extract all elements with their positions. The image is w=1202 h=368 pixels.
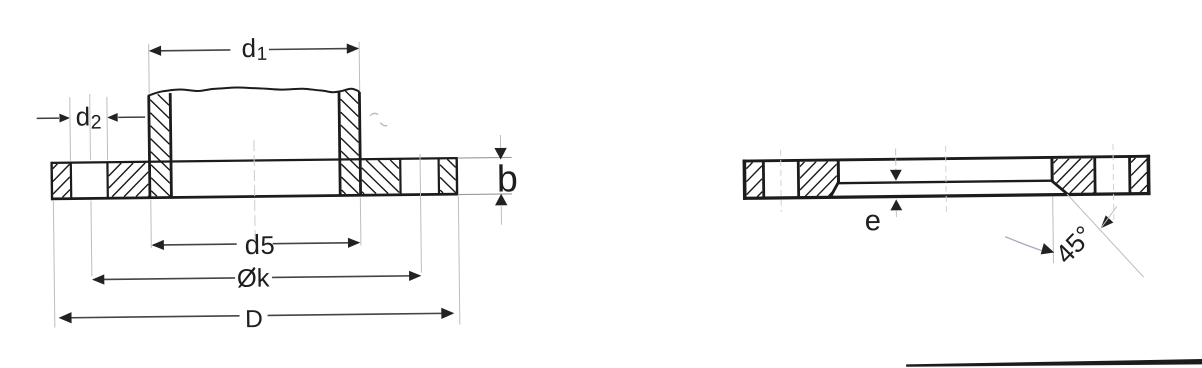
hatch right rim section <box>440 159 456 193</box>
label Øk slash overlay <box>239 267 255 287</box>
scan smudge artifact <box>370 113 387 126</box>
hatch hub wall left <box>150 94 170 196</box>
right view bolt hole left - left edge <box>762 160 765 199</box>
dimension d1 extension line right <box>358 42 361 91</box>
dimension Øk arrowhead right <box>409 271 421 281</box>
dimension d1 arrowhead left <box>149 46 161 56</box>
dimension 45 vertical extension <box>1052 197 1055 263</box>
dimension d5 line right segment <box>273 243 359 244</box>
bolt centerline right (with Øk extension) <box>420 154 421 272</box>
dimension d1 arrowhead right <box>347 43 359 53</box>
bolt hole right - right edge <box>437 158 440 195</box>
dimension e leader below <box>895 210 897 217</box>
dimension 45 arrowhead at vertical <box>1041 243 1055 254</box>
right view centerline <box>945 146 948 212</box>
dimension D extension line right <box>458 196 460 324</box>
bolt hole left - right edge <box>106 162 109 199</box>
dimension d2 leader left <box>37 117 59 119</box>
left view flange plate bottom line <box>52 194 457 199</box>
dimension d1 line left segment <box>150 49 230 52</box>
dimension D arrowhead right <box>441 308 454 319</box>
hatch left rim section <box>53 164 70 198</box>
dimension D line right segment <box>268 313 453 315</box>
dimension Øk line right segment <box>272 276 420 278</box>
dimension Øk arrowhead left <box>92 274 104 284</box>
hub wall left outer edge <box>149 96 150 198</box>
dimension b arrowhead up <box>495 194 508 206</box>
dimension b leader below <box>500 206 502 225</box>
hub wall right outer edge <box>359 92 360 196</box>
dimension d1 extension line left <box>148 44 151 93</box>
dimension e leader above <box>895 149 897 170</box>
dimension d2 arrowhead right <box>107 113 118 122</box>
dimension 45 chamfer extension <box>1067 193 1144 278</box>
dimension e arrowhead down <box>890 170 902 181</box>
right view bore seat line <box>839 181 1052 184</box>
hatch right view left rim <box>746 162 762 197</box>
hatch left web section <box>109 163 149 197</box>
right view flange plate left edge <box>743 160 747 200</box>
label d5 <box>246 234 274 255</box>
dimension b arrowhead down <box>494 148 507 160</box>
bolt hole left - left edge <box>70 162 73 199</box>
bolt hole right - left edge <box>399 158 402 195</box>
dimension b extension line top <box>457 156 511 159</box>
right view bolt centerline right <box>1112 144 1115 221</box>
dimension b leader above <box>499 135 501 148</box>
dimension 45 leader at chamfer <box>1101 207 1117 229</box>
dimension d2 leader right <box>118 116 145 118</box>
label d1 <box>243 38 267 60</box>
dimension D arrowhead left <box>58 312 71 323</box>
dimension d5 arrowhead left <box>152 240 164 250</box>
left view flange plate right edge <box>455 157 458 195</box>
right view weld chamfer left <box>831 182 839 196</box>
right view bolt hole right - left edge <box>1093 156 1096 195</box>
dimension d1 line right segment <box>269 48 358 49</box>
dimension d2 extension line right <box>106 97 109 160</box>
label D <box>247 310 262 327</box>
dimension d5 line left segment <box>153 243 236 246</box>
bolt centerline left (with Øk extension) <box>89 94 92 160</box>
left view flange plate top line <box>51 158 456 163</box>
right view bore edge right <box>1050 157 1053 181</box>
label 45 degrees <box>1054 225 1094 265</box>
right view bolt centerline left <box>780 150 783 212</box>
hub wall right inner edge <box>339 91 340 196</box>
right view flange plate top line <box>743 156 1150 161</box>
dimension Øk line left segment <box>94 278 235 280</box>
hatch hub wall right <box>340 91 359 194</box>
dimension 45 arc <box>1005 236 1041 251</box>
dimension b extension line bottom <box>458 193 512 196</box>
dimension d2 arrowhead left <box>59 114 70 123</box>
dimension 45 arrowhead at chamfer <box>1101 215 1114 228</box>
hatch right web section <box>362 160 400 194</box>
table edge line bottom right <box>906 359 1202 368</box>
label e <box>866 215 880 231</box>
dimension d5 extension line right <box>359 197 362 245</box>
right view bolt hole left - right edge <box>797 160 800 199</box>
dimension D extension line left <box>53 201 54 327</box>
right view flange plate bottom line <box>743 194 1150 199</box>
dimension e arrowhead up <box>890 199 902 210</box>
dimension D line left segment <box>62 316 240 318</box>
right view weld chamfer right <box>1052 181 1068 194</box>
label Øk <box>238 268 270 288</box>
pipe break line (wavy top) <box>148 86 360 96</box>
dimension d2 extension line left <box>69 97 72 160</box>
right view bolt hole right - right edge <box>1128 156 1131 195</box>
label b <box>499 164 516 192</box>
centerline left view <box>254 140 255 244</box>
right view bore edge left <box>837 160 840 184</box>
label d2 <box>77 106 101 128</box>
dimension d5 arrowhead right <box>348 238 360 248</box>
dimension d5 extension line left <box>150 200 153 248</box>
left view flange plate left edge <box>50 162 53 200</box>
bolt centerline left lower part <box>90 201 93 277</box>
right view flange plate right edge <box>1146 155 1150 195</box>
hatch right view right rim <box>1131 158 1147 193</box>
hub wall left inner edge <box>170 93 171 198</box>
